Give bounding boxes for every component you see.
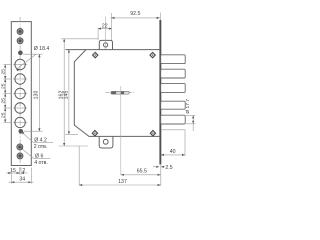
dim 15 line bbox=[6, 172, 20, 174]
dim 15 and 2 extensions bbox=[20, 168, 21, 175]
dim 25 labels bbox=[0, 69, 6, 118]
screw hole O6 top1 bbox=[17, 29, 23, 35]
dim 145 arrows bbox=[68, 50, 70, 135]
dim 2 line bbox=[21, 172, 28, 174]
screw hole O6 bottom2 bbox=[17, 153, 23, 159]
svg-text:25: 25 bbox=[0, 112, 6, 118]
dim 2.5 arrow right bbox=[161, 166, 165, 168]
dim 162 line bbox=[63, 39, 65, 146]
svg-text:34: 34 bbox=[19, 177, 25, 183]
dim 130 extension top bbox=[23, 53, 43, 55]
dim 25 chain line bbox=[4, 65, 6, 123]
dim 25 chain extension lines bbox=[4, 65, 12, 123]
bolt 2 bbox=[161, 69, 186, 78]
label O6 tail bbox=[34, 158, 51, 160]
dim 162 extension top bbox=[61, 38, 98, 40]
dim 92.5 line bbox=[111, 17, 161, 19]
svg-text:25: 25 bbox=[0, 69, 6, 75]
big hole O18.4 n3 bbox=[13, 88, 27, 98]
svg-text:4 отв.: 4 отв. bbox=[34, 160, 48, 166]
faceplate centerline bbox=[19, 17, 21, 170]
bolt 4 bbox=[161, 101, 186, 109]
dim 162 arrows bbox=[63, 39, 65, 146]
bolt 3 bbox=[161, 84, 186, 93]
svg-text:22: 22 bbox=[102, 23, 108, 29]
svg-text:25: 25 bbox=[0, 83, 6, 89]
label O18.4 leader bbox=[16, 54, 36, 69]
dim O17.7 extensions bbox=[186, 115, 195, 123]
cylinder axis vertical line bbox=[120, 86, 122, 175]
dim 145 line bbox=[68, 50, 70, 135]
bolt 1 bbox=[161, 55, 186, 64]
dim 130 extension bottom bbox=[24, 130, 43, 132]
bolt 5 bbox=[161, 115, 186, 124]
svg-text:2 отв.: 2 отв. bbox=[34, 144, 48, 150]
svg-text:145: 145 bbox=[64, 91, 70, 100]
rivet diamond top-left bbox=[93, 52, 98, 57]
dim 40 reference bracket bbox=[161, 130, 185, 156]
svg-text:Ø 6: Ø 6 bbox=[35, 153, 43, 159]
dim 40 line bbox=[161, 154, 185, 156]
dim 15 arrows bbox=[8, 172, 24, 174]
dim 2.5 arrow left bbox=[153, 166, 159, 168]
svg-text:65.5: 65.5 bbox=[137, 168, 147, 174]
dim 145 extension bottom bbox=[65, 133, 78, 135]
svg-text:92.5: 92.5 bbox=[130, 11, 140, 17]
svg-text:25: 25 bbox=[0, 98, 6, 104]
dim 92.5 extension left bbox=[110, 13, 112, 40]
key cylinder (side view) bbox=[111, 91, 129, 94]
top tab hole bbox=[104, 43, 108, 47]
rivet diamond bottom-right bbox=[150, 131, 155, 136]
screw hole O6 bottom1 bbox=[17, 144, 23, 150]
svg-text:Ø 17.7: Ø 17.7 bbox=[185, 99, 191, 114]
screw hole O6 top2 bbox=[17, 38, 23, 44]
top tab centerline bbox=[105, 17, 107, 50]
svg-text:Ø 18.4: Ø 18.4 bbox=[34, 46, 50, 52]
dim 34 line bbox=[9, 181, 34, 183]
svg-text:130: 130 bbox=[34, 91, 40, 100]
big hole O18.4 n4 bbox=[13, 103, 27, 113]
lock body outline bbox=[66, 50, 160, 137]
label O6 leader bbox=[21, 148, 34, 159]
dim 22 arrows bbox=[98, 28, 112, 30]
svg-text:2: 2 bbox=[22, 168, 25, 174]
rivet diamond bottom-left bbox=[92, 131, 97, 136]
dim 22 extension left bbox=[97, 28, 99, 40]
flange top extension bbox=[159, 13, 161, 21]
dim 34 extensions bbox=[11, 168, 31, 184]
svg-text:40: 40 bbox=[170, 149, 176, 155]
pin hole O4.2 top bbox=[18, 51, 22, 55]
big hole O18.4 n5 bbox=[13, 117, 27, 127]
svg-text:137: 137 bbox=[118, 179, 127, 185]
dim 22 line bbox=[98, 28, 112, 30]
faceplate flange (edge view) bbox=[159, 20, 161, 164]
dim 130 arrows bbox=[38, 54, 40, 131]
dim 162 extension bottom bbox=[59, 145, 88, 147]
svg-text:15: 15 bbox=[10, 168, 16, 174]
top mounting tab bbox=[99, 40, 112, 49]
rivet diamond top-right bbox=[150, 52, 155, 57]
svg-text:2.5: 2.5 bbox=[165, 165, 172, 171]
pin hole O4.2 bottom bbox=[19, 129, 23, 133]
dim 137 arrows bbox=[79, 184, 160, 186]
dim 40 arrows bbox=[161, 154, 185, 156]
dim 65.5 arrows bbox=[121, 174, 161, 176]
label O4.2 leader bbox=[22, 132, 34, 143]
dim 34 arrows bbox=[11, 181, 31, 183]
big hole O18.4 n1 bbox=[13, 59, 27, 69]
bottom mounting tab bbox=[99, 136, 113, 148]
svg-text:Ø 4.2: Ø 4.2 bbox=[34, 138, 47, 144]
dim 25 chain arrows bbox=[4, 65, 6, 123]
cylinder axis horizontal dashline bbox=[106, 92, 135, 94]
big hole O18.4 n2 bbox=[13, 74, 27, 84]
dim 137 line bbox=[79, 184, 160, 186]
dim O17.7 line bbox=[192, 115, 194, 131]
dim O17.7 arrows bbox=[192, 115, 194, 123]
dim 65.5 line bbox=[121, 174, 161, 176]
flange bottom extension bbox=[160, 165, 162, 186]
faceplate outline bbox=[11, 22, 31, 166]
bottom tab hole bbox=[103, 139, 108, 144]
dim 92.5 arrows bbox=[111, 17, 159, 19]
dim 130 line bbox=[38, 54, 40, 131]
dim 137 extension left bbox=[78, 146, 80, 186]
label O4.2 tail bbox=[34, 142, 53, 144]
